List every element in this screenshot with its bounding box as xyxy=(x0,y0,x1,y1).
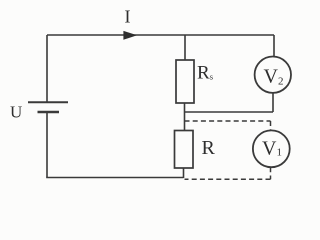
voltmeter V1 circle xyxy=(253,130,290,167)
wire R bottom lead xyxy=(183,168,185,179)
battery U short plate xyxy=(38,111,60,113)
voltmeter V2 circle xyxy=(255,56,291,92)
resistor Rs body xyxy=(176,60,194,103)
svg-text:I: I xyxy=(125,6,131,26)
wire left vertical upper xyxy=(46,35,48,102)
wire left vertical lower xyxy=(46,112,48,178)
wire Rs bottom to R top xyxy=(184,103,186,131)
dashed wire V1 bottom horizontal xyxy=(185,178,271,180)
wire top horizontal xyxy=(47,34,274,36)
dashed wire V1 bottom vertical xyxy=(270,167,272,179)
dashed wire V1 top horizontal xyxy=(185,120,271,122)
svg-text:R: R xyxy=(202,137,216,159)
wire bottom horizontal xyxy=(46,177,183,179)
battery U long plate xyxy=(28,101,68,103)
dashed wire V1 top vertical xyxy=(270,121,272,131)
wire middle horizontal to V2 xyxy=(185,111,274,113)
current arrow I xyxy=(124,31,136,39)
resistor R body xyxy=(175,131,194,169)
wire V2 top lead xyxy=(273,35,275,57)
wire Rs top lead xyxy=(184,35,186,60)
wire V2 bottom lead xyxy=(272,93,274,112)
svg-text:U: U xyxy=(10,103,22,122)
